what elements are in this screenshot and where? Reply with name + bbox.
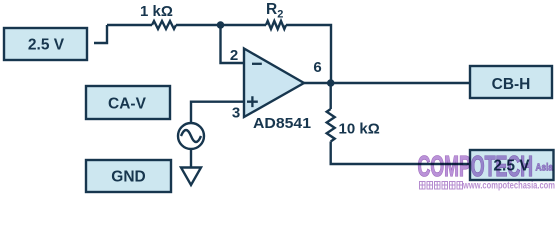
svg-text:6: 6: [313, 59, 321, 76]
svg-text:2.5 V: 2.5 V: [28, 37, 65, 54]
op-amp U1 AD8541: [244, 49, 304, 118]
wire top rail middle: [176, 24, 266, 26]
wire output to CB-H: [304, 82, 470, 84]
resistor R2 (feedback): [266, 21, 286, 29]
wire 10k down to 2.5 V box: [331, 142, 470, 165]
wire top rail left: [107, 24, 152, 26]
svg-text:CB-H: CB-H: [492, 76, 531, 93]
op-amp plus sign: [247, 96, 258, 107]
resistor 1 kOhm: [152, 21, 176, 29]
wire feedback top right and down: [286, 25, 331, 83]
svg-text:CA-V: CA-V: [108, 96, 147, 113]
op-amp minus sign: [252, 63, 262, 65]
reference box 2.5 V (bottom right): [470, 150, 554, 180]
resistor 10 kOhm: [327, 109, 335, 142]
label box GND: [86, 160, 171, 192]
node output junction: [327, 79, 335, 87]
svg-text:10 kΩ: 10 kΩ: [339, 121, 380, 138]
watermark chinese characters: [420, 182, 463, 190]
wire output junction down: [330, 83, 332, 109]
svg-text:www.compotechasia.com: www.compotechasia.com: [462, 181, 555, 192]
output box CB-H: [470, 66, 552, 98]
wire to pin 3: [191, 102, 244, 123]
svg-text:AD8541: AD8541: [253, 115, 311, 132]
svg-text:Asia: Asia: [536, 162, 554, 174]
node junction at inverting input: [217, 21, 225, 29]
svg-text:COMPOTECH: COMPOTECH: [418, 151, 534, 183]
svg-text:1 kΩ: 1 kΩ: [140, 3, 173, 20]
svg-text:GND: GND: [111, 169, 145, 186]
source box 2.5 V (left input): [4, 28, 87, 60]
wire junction down to pin 2: [221, 25, 245, 63]
wire source to ground: [190, 149, 192, 168]
wire stub from 2.5 V box: [94, 25, 107, 43]
svg-text:R2: R2: [266, 1, 283, 21]
svg-text:2: 2: [230, 47, 238, 64]
svg-text:3: 3: [232, 105, 240, 122]
sine wave source V1: [178, 123, 204, 149]
ground: [181, 168, 201, 186]
label box CA-V: [86, 86, 170, 119]
